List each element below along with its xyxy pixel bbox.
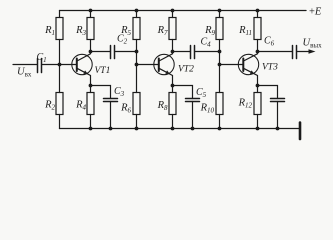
svg-text:R10: R10 (200, 103, 215, 115)
svg-text:VT3: VT3 (262, 63, 278, 73)
svg-text:+E: +E (309, 7, 322, 18)
svg-text:R9: R9 (204, 25, 215, 37)
resistor R3 (87, 11, 94, 52)
resistor R6 (133, 65, 140, 129)
svg-text:R8: R8 (157, 100, 168, 112)
junction dots base nodes (58, 63, 222, 67)
svg-text:Uвх: Uвх (17, 67, 32, 79)
svg-text:C6: C6 (264, 36, 275, 48)
capacitor C1 (13, 59, 77, 73)
svg-text:C1: C1 (37, 52, 47, 64)
capacitor C3 (91, 86, 118, 129)
resistor R9 (216, 11, 223, 52)
svg-text:R12: R12 (238, 98, 253, 110)
svg-text:R3: R3 (75, 25, 86, 37)
junction dots bottom rail (89, 127, 280, 131)
svg-text:VT2: VT2 (178, 65, 194, 75)
resistor R5 (133, 11, 140, 52)
svg-text:VT1: VT1 (95, 66, 111, 76)
resistor R11 (254, 11, 261, 52)
svg-text:R2: R2 (44, 100, 55, 112)
capacitor C2 (91, 46, 137, 59)
svg-text:R6: R6 (120, 103, 131, 115)
resistor R1 (56, 11, 63, 65)
resistor R10 (216, 65, 223, 129)
junction dots emitter nodes (89, 84, 260, 88)
svg-text:Uвых: Uвых (303, 38, 323, 50)
svg-text:C3: C3 (114, 86, 125, 98)
svg-text:R1: R1 (44, 25, 55, 37)
transistor VT2 (154, 52, 174, 86)
capacitor C5 (173, 86, 200, 129)
wire base node VT2 (137, 52, 159, 65)
resistor R12 (254, 86, 261, 129)
resistor R8 (169, 86, 176, 129)
resistor R4 (87, 86, 94, 129)
svg-text:R4: R4 (75, 100, 86, 112)
capacitor C6 (258, 46, 310, 59)
output arrow (309, 49, 316, 54)
svg-text:R7: R7 (157, 25, 168, 37)
svg-text:C5: C5 (196, 87, 207, 99)
wire top supply rail (60, 10, 307, 12)
transistor VT3 (238, 52, 258, 86)
wire bottom ground rail (60, 128, 301, 130)
junction dots coupling line (89, 50, 260, 54)
resistor R2 (56, 65, 63, 129)
resistor R7 (169, 11, 176, 52)
svg-text:R11: R11 (238, 25, 252, 37)
svg-text:C4: C4 (201, 37, 212, 49)
capacitor C7 emitter bypass VT3 (258, 86, 285, 129)
capacitor C4 (173, 46, 220, 59)
ground chassis bar (299, 123, 302, 140)
junction dots top rail (89, 9, 260, 13)
wire base node VT3 (220, 52, 244, 65)
transistor VT1 (72, 52, 92, 86)
